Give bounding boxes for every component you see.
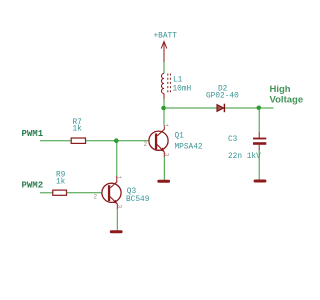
svg-text:1: 1: [115, 176, 122, 180]
svg-text:3: 3: [163, 153, 170, 157]
ground under C3: [254, 180, 267, 183]
resistor R7: [71, 138, 85, 143]
svg-text:MPSA42: MPSA42: [175, 144, 203, 152]
wire node B to High Voltage output: [259, 107, 274, 109]
wire node A to Q1 collector: [163, 108, 165, 125]
wire R9 to Q3 base: [67, 192, 102, 194]
diode D2: [217, 104, 224, 113]
transistor Q3 BC549: [102, 176, 121, 209]
wire L1 to node A: [163, 99, 165, 108]
supply +BATT arrow symbol: [161, 42, 167, 63]
svg-text:+BATT: +BATT: [154, 33, 178, 41]
svg-text:L1: L1: [173, 77, 183, 85]
svg-text:10mH: 10mH: [173, 86, 192, 94]
svg-text:GP02-40: GP02-40: [206, 93, 239, 101]
wire R7 to Q1 base: [86, 140, 149, 142]
transistor Q1 MPSA42: [149, 125, 168, 157]
svg-text:C3: C3: [228, 136, 238, 144]
svg-text:22n 1kV: 22n 1kV: [228, 153, 261, 161]
wire +BATT to L1: [163, 62, 165, 74]
svg-text:Q1: Q1: [175, 133, 185, 141]
svg-text:High: High: [270, 84, 291, 95]
svg-text:2: 2: [144, 141, 148, 148]
wire node B down to C3: [258, 108, 260, 132]
wire node C down to Q3 collector: [116, 141, 118, 176]
svg-text:2: 2: [94, 194, 98, 201]
ground under Q1: [157, 180, 170, 183]
svg-text:1k: 1k: [56, 179, 66, 187]
inductor L1 core dashes: [168, 74, 171, 95]
wire node A to D2 anode: [164, 107, 217, 109]
ground under Q3: [110, 230, 123, 233]
inductor L1 coil: [162, 74, 165, 94]
svg-text:1: 1: [162, 124, 169, 128]
svg-text:PWM2: PWM2: [22, 181, 44, 191]
wire Q1 emitter to ground: [163, 157, 165, 180]
svg-text:1k: 1k: [73, 126, 83, 134]
svg-text:Q3: Q3: [127, 188, 137, 196]
svg-text:3: 3: [116, 205, 123, 209]
node A junction dot: [161, 106, 166, 111]
wire PWM1 to R7: [40, 140, 71, 142]
inductor L1 pin stub: [163, 94, 165, 100]
node C junction dot: [114, 138, 119, 143]
wire PWM2 to R9: [40, 192, 53, 194]
svg-text:PWM1: PWM1: [22, 129, 44, 139]
svg-text:Voltage: Voltage: [270, 95, 304, 106]
wire C3 to ground: [258, 145, 260, 151]
resistor R9: [53, 190, 67, 195]
wire Q3 emitter to ground: [116, 209, 118, 230]
wire D2 cathode to node B: [225, 107, 259, 109]
node B junction dot: [257, 106, 262, 111]
svg-text:BC549: BC549: [126, 196, 150, 204]
capacitor C3 plates: [253, 138, 266, 140]
